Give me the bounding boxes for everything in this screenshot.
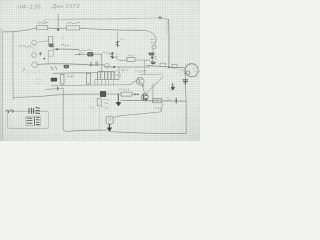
wire vertical x=186 below speaker	[184, 67, 187, 101]
wire top bus y=19	[44, 19, 58, 21]
wire vertical x=144.6	[144, 60, 146, 74]
battery box	[7, 111, 49, 128]
node input circle J3	[32, 62, 38, 68]
node dark dot (44.3,58.6)	[43, 58, 45, 60]
light marks (165-175,95-103)	[166, 97, 170, 100]
component circle (154,47)	[152, 45, 156, 49]
svg-text:Дек.1973: Дек.1973	[51, 4, 80, 10]
label left column text	[19, 45, 31, 47]
wire verticals x=119,123	[119, 67, 123, 79]
small component box (160-166,63-66.5)	[160, 63, 166, 66]
wire slope join to y=54	[79, 50, 83, 55]
wire Q2 emitter down	[142, 84, 144, 93]
label R1 value	[38, 21, 49, 24]
dark tick (176,98-103)	[175, 98, 177, 103]
wire bus y=60.5	[115, 57, 127, 61]
capacitor marks (184-188.5,80-84)	[183, 80, 188, 84]
capacitor dark on bus (88-93)	[88, 53, 93, 56]
wire bus y=94	[63, 93, 118, 95]
resistor R1 box top-left	[37, 26, 48, 30]
node dark tick (57.5,88.5)	[57, 87, 59, 90]
label 1k	[62, 44, 69, 47]
dark tick (40,52)	[39, 52, 42, 56]
resistor vertical box (60.5-64,74-84)	[61, 74, 64, 84]
label above resistor (118-130,88-91.5)	[119, 89, 129, 91]
wire vertical x=152.9	[152, 84, 154, 102]
wire second bus y=28-30	[3, 28, 146, 32]
speaker radial ticks	[186, 63, 200, 77]
mid-left buses: bus C y=73	[53, 72, 97, 75]
dark box (100-106,91-97)	[100, 91, 105, 96]
node input circle J1	[32, 40, 37, 45]
wire left vertical x=13	[12, 32, 14, 100]
battery terminal scribbles top-left	[6, 110, 13, 113]
squiggles above left (100-112,105-110)	[101, 107, 108, 109]
wire bus y=54.3	[75, 53, 102, 55]
transistor small circle (107,66)	[105, 64, 109, 68]
svg-text:ЧФ-136,: ЧФ-136,	[17, 4, 43, 11]
wire through resistor	[118, 93, 139, 95]
transistor Q3 dark cluster (139-150,94-100)	[141, 94, 148, 101]
IC box row (97-114,71.5-79)	[98, 72, 114, 79]
transistor Q2 circle (140,81)	[137, 77, 145, 85]
wire line10 box to right	[113, 104, 162, 118]
squiggle (153.5-160.5,106.5-110.5)	[154, 107, 160, 109]
wire doubled vertical x=166.9	[166, 21, 168, 35]
wire mid bus y=49	[53, 48, 79, 51]
node junction (169,67.5)	[168, 67, 170, 69]
wire from box to right	[135, 59, 150, 61]
dark arrow (171-174.5,83.5-90)	[171, 84, 174, 90]
node + junction top right	[158, 16, 162, 20]
marks ЛГ (90-100,61-66)	[90, 62, 98, 66]
capacitor dark dash (148.8-154,52.8)	[149, 53, 154, 55]
transistor dark cluster (111-115,52-59)	[111, 53, 114, 59]
dark arrow A1 (116-120.5,94-106)	[117, 94, 119, 102]
label R2 value	[67, 22, 80, 23]
vertical resistor box (97-101.5,98-106)	[97, 98, 101, 106]
wire bottom y=130.5	[67, 130, 107, 131]
wire vertical link x=58	[57, 14, 59, 31]
transistor dark segment on it	[116, 41, 119, 47]
wire under box row y=79.6	[95, 78, 119, 80]
dark blob (51-57,78-81)	[51, 78, 57, 81]
label right (120-124,38-41)	[121, 39, 124, 40]
node dark dot (24,69)	[23, 68, 25, 70]
battery dark cluster mid-right	[27, 117, 39, 125]
wire vertical x=101.5	[101, 54, 103, 72]
diagonal emitter to speaker line	[146, 77, 164, 95]
label (150-156,38-44)	[151, 39, 156, 43]
resistor R2 box	[66, 26, 79, 30]
small box at J2 right	[48, 51, 53, 57]
dark dash (151-155,62)	[151, 62, 155, 64]
wire J1-J2 vertical	[33, 45, 35, 53]
wire right vertical x=169	[168, 19, 170, 67]
small circle squiggle (172.5,87.5)... below arrow	[169, 85, 175, 91]
label small under bus	[61, 36, 64, 40]
node dot (57,49)	[56, 48, 58, 50]
diagonal bus D to Q2	[130, 79, 139, 85]
wire right vertical x=186 lower	[185, 101, 187, 133]
capacitor dark blob (64-69,65-68)	[64, 65, 69, 68]
label ЧП-1971 (134-146,69.5-75)	[135, 70, 146, 72]
speaker inner circle	[186, 71, 190, 75]
wire vertical x=63.3	[63, 88, 67, 131]
resistor box (127-135,57.5-61.5)	[127, 58, 135, 62]
dark blob under C-box	[49, 44, 54, 47]
wire corner to right vertical	[161, 18, 169, 19]
lower-left: wire bottom slope to junction	[13, 94, 63, 97]
labels (114-125,70-76)	[115, 71, 121, 77]
left paper edge shadow	[0, 28, 3, 141]
label лв (88-98,105-110)	[89, 107, 94, 109]
faint squiggle (35-42,78-84)	[36, 79, 41, 84]
wire bus y=64 left	[37, 64, 103, 65]
wire bottom bus y=133.5	[111, 132, 187, 134]
dark arrow A2 (107-111,125-132)	[108, 124, 112, 131]
wire J1 to C-box	[36, 41, 48, 42]
small box (172-177,64.5-68.5)	[172, 64, 177, 68]
paper specks	[8, 12, 194, 123]
resistor vertical box (86-91,73-84)	[86, 73, 90, 84]
wire box lead down	[47, 56, 49, 64]
wire speaker bus y=67.5	[146, 65, 184, 67]
battery inner box line	[26, 117, 41, 126]
wire bus y=67 right	[103, 65, 150, 67]
wire vertical x=117.5 from bus2	[117, 31, 119, 47]
wire y=74.5 to right	[140, 73, 163, 76]
small box on bus8 (152.5-162,98.5-103)	[153, 99, 162, 103]
wire bus8 y=101	[121, 99, 186, 102]
rounded box (106-113,116-124)	[106, 116, 113, 124]
battery dark cluster top-right	[29, 108, 40, 114]
wire line F y=88.6	[46, 88, 63, 89]
node junction dot x=58	[57, 29, 59, 31]
node dots on bus	[134, 94, 136, 96]
label above cap	[81, 50, 92, 52]
label 86u (102-109,51-56)	[103, 52, 110, 55]
marks cluster (50-57,66-70)	[51, 66, 57, 70]
node input circle J2	[32, 53, 37, 58]
label marks (120-130,68-72)	[121, 69, 127, 71]
node dot (79,54)	[78, 53, 80, 55]
wire Q3 down to bus8	[144, 99, 146, 102]
label right of Q (115-119,53-57)	[116, 54, 119, 57]
label below (178-185,69-72.5)	[179, 70, 185, 72]
paper background	[0, 0, 200, 141]
resistor box (121-132,92-96)	[121, 92, 132, 96]
hatch row 2 (94.6-113.3, 80.5-85.3)	[95, 81, 114, 86]
label above box (128-134,55-58)	[128, 55, 134, 56]
wire small vertical through cluster	[152, 49, 154, 65]
wire faint vertical x=99	[98, 106, 100, 130]
capacitor C-box vertical (48-53,36-44)	[49, 36, 53, 44]
speaker circle	[185, 64, 198, 77]
node junction (114,67)	[113, 66, 115, 68]
node dark dot (152,57.5)	[151, 56, 153, 58]
label right (103-110,98-103.5)	[104, 99, 109, 103]
label ПУ (67-73,74-78)	[68, 75, 74, 78]
wire bend down right of bus2	[145, 30, 156, 44]
faint text row (20-45,70-74)	[21, 70, 39, 73]
bus D y=85.3	[51, 85, 130, 86]
